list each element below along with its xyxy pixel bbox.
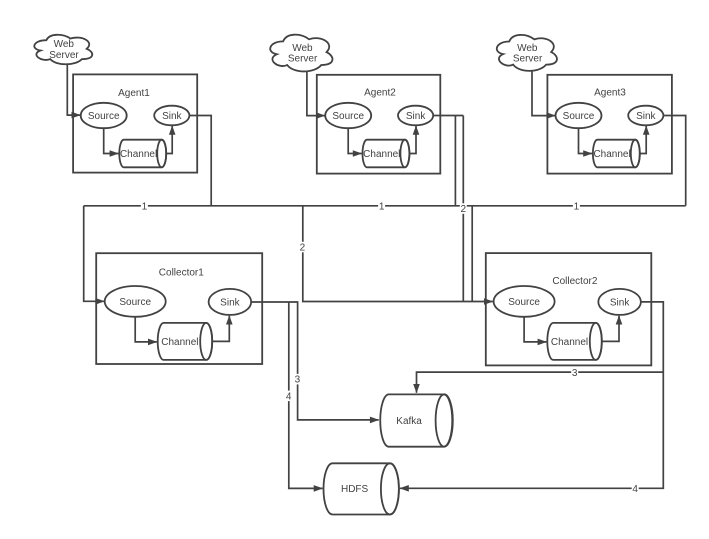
svg-text:Agent2: Agent2	[364, 88, 396, 99]
svg-text:1: 1	[379, 201, 385, 212]
svg-text:Source: Source	[88, 111, 120, 122]
svg-text:3: 3	[295, 375, 301, 386]
svg-text:Sink: Sink	[610, 297, 630, 308]
svg-text:3: 3	[572, 368, 578, 379]
svg-text:Source: Source	[332, 111, 364, 122]
svg-text:Sink: Sink	[162, 111, 182, 122]
svg-text:Web: Web	[517, 43, 538, 54]
svg-text:Source: Source	[563, 111, 595, 122]
svg-text:4: 4	[632, 484, 638, 495]
svg-text:Collector2: Collector2	[552, 276, 597, 287]
svg-text:Agent1: Agent1	[118, 88, 150, 99]
svg-text:Channel: Channel	[593, 149, 630, 160]
svg-text:Collector1: Collector1	[159, 267, 204, 278]
svg-text:Web: Web	[292, 43, 313, 54]
svg-text:Source: Source	[119, 297, 151, 308]
svg-text:Agent3: Agent3	[594, 88, 626, 99]
svg-text:Server: Server	[288, 53, 318, 64]
svg-text:Web: Web	[54, 39, 75, 50]
svg-text:Channel: Channel	[161, 337, 198, 348]
svg-text:2: 2	[300, 243, 306, 254]
svg-text:1: 1	[142, 201, 148, 212]
svg-text:Server: Server	[513, 53, 543, 64]
svg-text:Sink: Sink	[636, 111, 656, 122]
svg-text:Sink: Sink	[406, 111, 426, 122]
svg-text:Server: Server	[49, 50, 79, 61]
svg-text:Channel: Channel	[551, 337, 588, 348]
svg-text:4: 4	[286, 391, 292, 402]
svg-text:Channel: Channel	[120, 149, 157, 160]
svg-text:2: 2	[461, 204, 467, 215]
svg-text:Kafka: Kafka	[396, 416, 422, 427]
svg-text:Sink: Sink	[220, 297, 240, 308]
svg-text:1: 1	[574, 201, 580, 212]
svg-text:HDFS: HDFS	[341, 484, 369, 495]
svg-text:Source: Source	[508, 297, 540, 308]
svg-text:Channel: Channel	[363, 149, 400, 160]
